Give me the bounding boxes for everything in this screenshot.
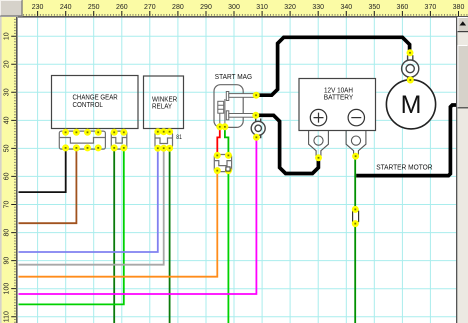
pin J2-2 top bbox=[120, 129, 127, 136]
node marker D (connector J4 pin 2 bottom) bbox=[226, 167, 230, 171]
pin J4-1 bottom bbox=[214, 167, 221, 174]
svg-text:CONTROL: CONTROL bbox=[73, 100, 103, 109]
svg-text:40: 40 bbox=[4, 116, 11, 124]
top ruler bbox=[22, 0, 468, 16]
wire dark-green (winker J3 pin3 down to bottom edge) bbox=[169, 148, 171, 323]
connector J4 (start mag 2x2) bbox=[214, 155, 231, 172]
svg-text:360: 360 bbox=[397, 4, 409, 11]
pin K1 5 bbox=[253, 92, 260, 99]
svg-text:240: 240 bbox=[60, 4, 72, 11]
relay K1 coil bbox=[218, 99, 225, 127]
wire red (start-mag coil pin to J4 pin1) bbox=[217, 128, 220, 155]
wire green (start-mag coil pin to J4 pin2) bbox=[225, 128, 229, 155]
svg-text:330: 330 bbox=[312, 4, 324, 11]
svg-text:90: 90 bbox=[4, 257, 11, 265]
pin J1-2 bottom bbox=[73, 144, 80, 151]
svg-text:230: 230 bbox=[32, 4, 44, 11]
svg-text:350: 350 bbox=[368, 4, 380, 11]
terminal lug T1 (battery +) bbox=[309, 131, 329, 157]
svg-text:320: 320 bbox=[284, 4, 296, 11]
svg-text:380: 380 bbox=[453, 4, 465, 11]
pin K1 coil b bbox=[221, 123, 228, 130]
box U1 CHANGE GEAR CONTROL bbox=[52, 76, 139, 129]
pin J1-4 bottom bbox=[95, 144, 102, 151]
wire green (J4 pin down to bottom edge) bbox=[227, 172, 229, 323]
relay K1 contact upper (pin 5) bbox=[226, 92, 254, 101]
pin J3-2 bottom bbox=[160, 145, 167, 152]
terminal lug T2 (battery -) bbox=[346, 131, 366, 157]
wire orange (J4 pin to left edge) bbox=[19, 172, 218, 277]
pin R1 bottom bbox=[253, 134, 260, 141]
fuse F1 (battery minus lead) bbox=[353, 211, 359, 221]
svg-text:100: 100 bbox=[4, 283, 11, 295]
svg-text:290: 290 bbox=[200, 4, 212, 11]
pin R2 top bbox=[407, 49, 414, 56]
svg-text:81: 81 bbox=[176, 134, 182, 141]
pin J2-2 bottom bbox=[120, 144, 127, 151]
pin J4-2 bottom bbox=[225, 167, 232, 174]
svg-text:60: 60 bbox=[4, 172, 11, 180]
pin J3-3 top bbox=[166, 128, 173, 135]
cable thick black (start-mag pin M to battery + terminal T1) bbox=[257, 115, 319, 173]
connector J3 (winker relay 3x2) bbox=[155, 132, 173, 148]
pin J1-2 top bbox=[73, 129, 80, 136]
wire dark-green battery minus (upper part) bbox=[354, 157, 356, 210]
ruler corner box bbox=[0, 0, 22, 16]
box U2 WINKER RELAY bbox=[144, 76, 184, 129]
pin R2 bottom bbox=[407, 77, 414, 84]
svg-text:280: 280 bbox=[172, 4, 184, 11]
pin J3-3 bottom bbox=[166, 145, 173, 152]
svg-text:RELAY: RELAY bbox=[152, 102, 172, 111]
pin K1 M bbox=[252, 112, 259, 119]
pin T2 (battery -) bbox=[352, 153, 359, 160]
pin T1 (battery +) bbox=[315, 154, 322, 161]
wire violet (winker J3 pin1 to left edge) bbox=[19, 148, 158, 252]
svg-text:300: 300 bbox=[228, 4, 240, 11]
ring terminal R1 (start mag pin M / magenta wire) bbox=[251, 119, 265, 139]
cable thick black (right edge to battery - node, starter motor return) bbox=[356, 105, 456, 176]
wire green (change-gear J2 pin2 to left edge) bbox=[19, 148, 124, 304]
svg-text:270: 270 bbox=[144, 4, 156, 11]
pin J3-1 top bbox=[154, 128, 161, 135]
wire brown (change-gear J1 pin2 to left edge) bbox=[19, 148, 77, 223]
svg-text:30: 30 bbox=[4, 88, 11, 96]
battery BT1 12V 10AH body bbox=[299, 79, 376, 131]
pin J1-4 top bbox=[95, 129, 102, 136]
motor M1 bbox=[386, 80, 435, 129]
relay K1 body bbox=[214, 85, 243, 128]
pin J1-1 top bbox=[62, 129, 69, 136]
svg-text:340: 340 bbox=[340, 4, 352, 11]
svg-text:110: 110 bbox=[4, 311, 11, 322]
pin F1 bottom bbox=[352, 220, 359, 227]
pin J2-1 bottom bbox=[111, 144, 118, 151]
relay K1 contact lower (pin M) bbox=[226, 111, 254, 120]
ring terminal R2 (motor supply) bbox=[402, 55, 419, 80]
pin J1-1 bottom bbox=[62, 144, 69, 151]
pin J2-1 top bbox=[111, 129, 118, 136]
pin F1 top bbox=[352, 206, 359, 213]
wire magenta (ring R1 to left edge) bbox=[19, 139, 257, 295]
pin J3-2 top bbox=[160, 128, 167, 135]
pin K1 coil a bbox=[216, 123, 223, 130]
svg-text:250: 250 bbox=[88, 4, 100, 11]
pin J3-1 bottom bbox=[154, 145, 161, 152]
svg-text:BATTERY: BATTERY bbox=[324, 93, 354, 102]
wire dark-green battery minus (lower part, to bottom edge) bbox=[354, 224, 356, 323]
svg-text:310: 310 bbox=[256, 4, 268, 11]
svg-text:70: 70 bbox=[4, 201, 11, 209]
connector J1 (change gear 4x2) bbox=[59, 131, 105, 149]
pin J4-2 top bbox=[225, 152, 232, 159]
svg-text:80: 80 bbox=[4, 229, 11, 237]
pin J4-1 top bbox=[214, 152, 221, 159]
connector J2 (change gear 2x2) bbox=[111, 131, 127, 149]
wire dark-green (change-gear J2 pin1 down to bottom edge) bbox=[113, 148, 115, 323]
battery BT1 plus terminal symbol bbox=[310, 109, 326, 125]
svg-text:370: 370 bbox=[425, 4, 437, 11]
svg-text:M: M bbox=[401, 91, 422, 119]
svg-text:50: 50 bbox=[4, 144, 11, 152]
left ruler bbox=[0, 17, 16, 323]
battery BT1 minus terminal symbol bbox=[348, 109, 364, 125]
vertical scrollbar bbox=[456, 17, 457, 323]
wire grey (winker J3 pin2 to left edge) bbox=[19, 148, 164, 264]
svg-text:START MAG: START MAG bbox=[215, 72, 252, 81]
pin J1-3 bottom bbox=[84, 144, 91, 151]
pin stubs J1/J2 to U1 bbox=[66, 129, 124, 133]
svg-text:260: 260 bbox=[116, 4, 128, 11]
svg-text:10: 10 bbox=[4, 32, 11, 40]
cable thick black (start-mag pin 5 up and over to motor ring R2) bbox=[257, 37, 410, 95]
pin J1-3 top bbox=[84, 129, 91, 136]
svg-text:STARTER MOTOR: STARTER MOTOR bbox=[376, 162, 432, 171]
svg-text:20: 20 bbox=[4, 60, 11, 68]
wire black (change-gear J1 pin1 to left edge) bbox=[19, 148, 66, 192]
